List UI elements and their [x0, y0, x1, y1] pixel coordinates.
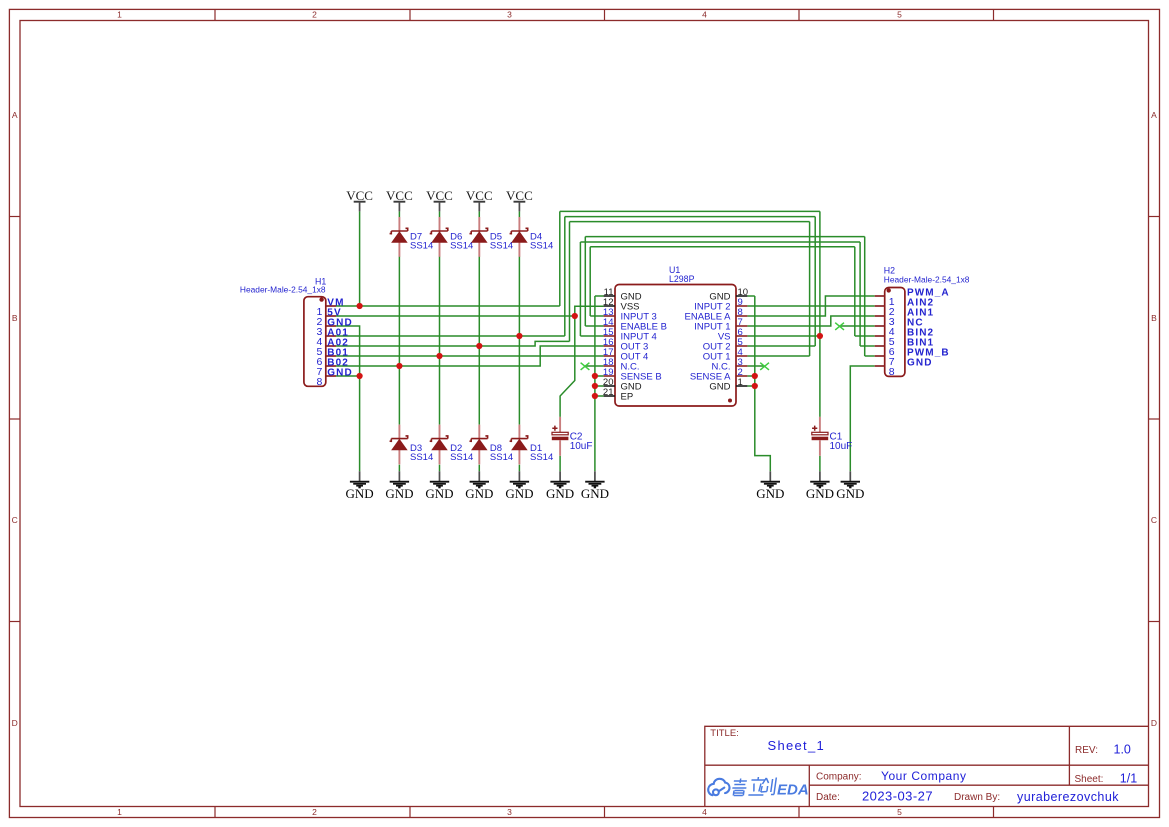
- wire BIN2 drop right: [854, 247, 856, 336]
- junction VM / VCC col1: [357, 303, 363, 309]
- wire H2 NC pin4 stub wire: [840, 325, 875, 327]
- wire bottom diode to GND col 3: [439, 465, 441, 472]
- wire VM over-the-top: [560, 210, 820, 212]
- wire U1 GND pin10: [747, 295, 754, 297]
- svg-text:10uF: 10uF: [570, 441, 593, 452]
- diode D5 SS14: [470, 217, 514, 257]
- wire VM riser left: [559, 211, 561, 306]
- svg-text:1.0: 1.0: [1114, 742, 1131, 756]
- svg-text:1: 1: [738, 377, 743, 388]
- svg-text:GND: GND: [346, 486, 374, 501]
- svg-text:SS14: SS14: [530, 241, 553, 252]
- wire 5V down to C2: [560, 316, 575, 417]
- svg-text:1/1: 1/1: [1120, 771, 1137, 785]
- power flag VCC 5: [506, 188, 533, 211]
- junction GND pin19: [592, 373, 598, 379]
- svg-text:SS14: SS14: [490, 241, 513, 252]
- wire U1 GND pin11: [595, 295, 604, 297]
- ground symbol GND 10: [836, 471, 864, 501]
- wire net row to bottom diode col 5: [518, 336, 520, 425]
- border row letters right: [1151, 110, 1157, 728]
- svg-text:GND: GND: [907, 357, 933, 368]
- wire bottom diode to GND col 2: [398, 465, 400, 472]
- ground symbol GND 7: [581, 471, 609, 501]
- svg-text:2: 2: [312, 10, 317, 20]
- svg-text:2: 2: [312, 807, 317, 817]
- wire U1 GND pin20 tap: [595, 385, 604, 387]
- diode D3 SS14: [390, 425, 434, 465]
- wire VCC to top diode col 5: [518, 211, 520, 217]
- svg-text:SS14: SS14: [450, 241, 473, 252]
- svg-text:A: A: [12, 110, 18, 120]
- wire GND column to ground: [359, 376, 361, 471]
- wire A02 row from H1 pin5: [336, 341, 570, 346]
- EDA logo cloud icon: [708, 779, 729, 795]
- wire VM row from H1 pin1: [336, 305, 560, 307]
- junction 5V / VSS / C2: [572, 313, 578, 319]
- diode D1 SS14: [510, 425, 554, 465]
- ground symbol GND 4: [465, 471, 493, 501]
- wire BIN1 to H2 pin6: [860, 345, 875, 347]
- svg-text:B: B: [12, 313, 18, 323]
- svg-text:3: 3: [507, 807, 512, 817]
- wire GND H1 pin3 down: [336, 326, 360, 376]
- wire VS to VM node: [747, 335, 820, 337]
- title block frame: [705, 726, 1149, 806]
- wire A01 to U1 OUT2 pin5: [747, 345, 815, 347]
- svg-text:Your Company: Your Company: [881, 769, 967, 783]
- wire U1 EP pin21 tap: [595, 395, 604, 397]
- power flag VCC 2: [386, 188, 413, 211]
- junction GND pin1: [752, 383, 758, 389]
- wire net row to bottom diode col 3: [439, 356, 441, 425]
- wire U1 left GND column: [594, 296, 596, 471]
- svg-text:C: C: [1151, 515, 1157, 525]
- wire top diode to net row col 4: [478, 257, 480, 347]
- wire INPUT3/BIN2 over-the-top: [590, 246, 855, 248]
- capacitor C1 10uF: [812, 417, 853, 456]
- wire A02 riser left: [569, 222, 571, 342]
- EDA logo CJK text (stylized): [731, 777, 776, 796]
- capacitor C2 10uF: [552, 417, 593, 456]
- wire INPUT1 to H2 AIN1: [747, 316, 874, 326]
- ground symbol GND 3: [425, 471, 453, 501]
- H1 net labels: [327, 297, 353, 378]
- wire bottom diode to GND col 5: [518, 465, 520, 472]
- wire VCC to top diode col 3: [439, 211, 441, 217]
- svg-text:GND: GND: [546, 486, 574, 501]
- svg-text:GND: GND: [806, 486, 834, 501]
- wire top diode to net row col 3: [439, 257, 441, 357]
- junction GND SENSE A: [752, 373, 758, 379]
- wire top diode to net row col 5: [518, 257, 520, 337]
- wire VCC to top diode col 2: [398, 211, 400, 217]
- wire A02 over-the-top: [570, 221, 810, 223]
- junction A02 / diode col D5-D8: [476, 343, 482, 349]
- svg-text:GND: GND: [327, 367, 353, 378]
- svg-text:1: 1: [117, 10, 122, 20]
- U1 right pin numbers: [738, 287, 749, 388]
- junction VM / VS / C1: [817, 333, 823, 339]
- svg-text:GND: GND: [709, 382, 730, 393]
- svg-text:Drawn By:: Drawn By:: [954, 792, 1000, 803]
- svg-text:GND: GND: [465, 486, 493, 501]
- power flag VCC 3: [426, 188, 453, 211]
- border column ticks bottom: [215, 807, 994, 818]
- wire VM drop right to C1: [819, 211, 821, 417]
- connector H1 Header-Male-2.54_1x8: [240, 276, 336, 388]
- svg-text:GND: GND: [425, 486, 453, 501]
- no-connect X U1 pin18: [581, 363, 590, 370]
- wire bottom diode to GND col 4: [478, 465, 480, 472]
- diode D7 SS14: [390, 217, 434, 257]
- ground symbol GND 1: [346, 471, 374, 501]
- ground symbol GND 2: [385, 471, 413, 501]
- svg-text:Date:: Date:: [816, 792, 840, 803]
- wire A01 over-the-top: [565, 216, 815, 218]
- svg-text:Header-Male-2.54_1x8: Header-Male-2.54_1x8: [240, 285, 326, 295]
- wire ENABLE A to H2 PWM_A: [747, 296, 874, 316]
- wire ENABLE B riser left: [584, 237, 586, 326]
- svg-text:REV:: REV:: [1075, 745, 1098, 756]
- wire U1 SENSE B pin19 tap: [595, 375, 604, 377]
- junction GND pin20: [592, 383, 598, 389]
- wire GND H1 pin8: [336, 375, 360, 377]
- ground symbol GND 9: [806, 471, 834, 501]
- no-connect X U1 pin3: [760, 363, 769, 370]
- diode D8 SS14: [470, 425, 514, 465]
- svg-text:yuraberezovchuk: yuraberezovchuk: [1017, 790, 1119, 804]
- svg-text:SS14: SS14: [530, 452, 553, 463]
- svg-text:GND: GND: [581, 486, 609, 501]
- svg-text:10uF: 10uF: [830, 441, 853, 452]
- svg-text:GND: GND: [836, 486, 864, 501]
- svg-text:EP: EP: [621, 392, 634, 403]
- wire A02 to U1 OUT1 pin4: [747, 355, 809, 357]
- U1 left pin names: [621, 292, 667, 403]
- wire top diode to net row col 2: [398, 257, 400, 367]
- wire U1 N.C. pin18 stub wire: [585, 365, 604, 367]
- svg-text:C: C: [12, 515, 18, 525]
- wire net row to bottom diode col 2: [398, 366, 400, 425]
- ground symbol GND 8: [756, 471, 784, 501]
- svg-text:TITLE:: TITLE:: [710, 728, 739, 739]
- svg-text:B: B: [1151, 313, 1157, 323]
- connector H2 Header-Male-2.54_1x8: [875, 266, 970, 378]
- wire B01 row to U1 OUT4 pin17: [336, 355, 604, 357]
- svg-text:GND: GND: [385, 486, 413, 501]
- wire INPUT4 riser left: [579, 242, 581, 336]
- svg-text:SS14: SS14: [450, 452, 473, 463]
- border row letters left: [12, 110, 18, 728]
- junction GND H1 pin8: [357, 373, 363, 379]
- wire INPUT4 to U1 pin15: [580, 335, 603, 337]
- wire ENABLE B/PWM_B over-the-top: [585, 236, 864, 238]
- wire ENABLE B to U1 pin14: [585, 325, 603, 327]
- no-connect X H2 pin4: [835, 323, 844, 330]
- power flag VCC 4: [466, 188, 493, 211]
- diode D4 SS14: [510, 217, 554, 257]
- svg-text:A: A: [1151, 110, 1157, 120]
- svg-text:SS14: SS14: [410, 241, 433, 252]
- svg-text:GND: GND: [756, 486, 784, 501]
- wire A02 drop right: [809, 222, 811, 356]
- svg-text:Header-Male-2.54_1x8: Header-Male-2.54_1x8: [884, 274, 970, 284]
- svg-text:2023-03-27: 2023-03-27: [862, 789, 933, 804]
- junction B01 / diode col D6-D2: [436, 353, 442, 359]
- H2 net labels: [907, 287, 950, 368]
- svg-text:5: 5: [897, 10, 902, 20]
- svg-text:1: 1: [117, 807, 122, 817]
- wire INPUT4/BIN1 over-the-top: [580, 241, 860, 243]
- wire VCC column 1: [359, 211, 361, 306]
- diode D2 SS14: [430, 425, 474, 465]
- junction GND pin21: [592, 393, 598, 399]
- border row ticks right: [1149, 217, 1160, 622]
- wire U1 N.C. pin3 stub wire: [747, 365, 764, 367]
- svg-text:4: 4: [702, 10, 707, 20]
- wire A01 row from H1 pin4: [336, 335, 565, 337]
- border column numbers top: [117, 10, 902, 20]
- svg-text:5: 5: [897, 807, 902, 817]
- svg-text:SS14: SS14: [410, 452, 433, 463]
- wire C1 minus to GND: [819, 456, 821, 472]
- svg-text:Sheet:: Sheet:: [1075, 774, 1104, 785]
- diode D6 SS14: [430, 217, 474, 257]
- border column numbers bottom: [117, 807, 902, 817]
- wire U1 SENSE A pin2 tap: [747, 375, 754, 377]
- border row ticks left: [9, 217, 20, 622]
- op-amp / IC U1 L298P body: [603, 265, 748, 406]
- U1 left pin numbers: [603, 287, 614, 398]
- border column ticks top: [215, 9, 994, 20]
- wire INPUT2/AIN2 row: [747, 305, 874, 307]
- wire A01 riser left: [564, 217, 566, 336]
- junction B02 / diode col D7-D3: [396, 363, 402, 369]
- wire U1 right GND column: [755, 296, 771, 471]
- svg-text:L298P: L298P: [669, 274, 695, 284]
- wire A01 drop right: [814, 217, 816, 346]
- wire INPUT3 to U1 pin13: [590, 315, 603, 317]
- svg-text:Sheet_1: Sheet_1: [768, 738, 826, 753]
- wire C2 minus to GND: [559, 456, 561, 472]
- wire H2 GND pin8 to ground: [850, 366, 874, 471]
- svg-text:Company:: Company:: [816, 772, 862, 783]
- wire INPUT3 riser left: [589, 247, 591, 316]
- wire net row to bottom diode col 4: [478, 346, 480, 425]
- svg-text:EDA: EDA: [777, 782, 809, 799]
- wire B02 row to U1 OUT3 pin16: [336, 346, 604, 366]
- power flag VCC 1: [346, 188, 373, 211]
- wire 5V to U1 VSS pin12: [575, 306, 604, 316]
- wire U1 GND pin1 tap: [747, 385, 754, 387]
- wire VCC to top diode col 4: [478, 211, 480, 217]
- U1 right pin names: [685, 292, 732, 393]
- svg-text:8: 8: [889, 366, 895, 378]
- wire PWM_B drop right: [864, 237, 866, 356]
- wire 5V row from H1 pin2: [336, 315, 575, 317]
- svg-text:GND: GND: [505, 486, 533, 501]
- ground symbol GND 5: [505, 471, 533, 501]
- wire BIN1 drop right: [859, 242, 861, 346]
- svg-text:D: D: [12, 718, 18, 728]
- wire PWM_B to H2 pin7: [865, 355, 875, 357]
- svg-text:SS14: SS14: [490, 452, 513, 463]
- svg-text:4: 4: [702, 807, 707, 817]
- svg-text:D: D: [1151, 718, 1157, 728]
- ground symbol GND 6: [546, 471, 574, 501]
- svg-text:21: 21: [603, 387, 614, 398]
- wire BIN2 to H2 pin5: [855, 335, 875, 337]
- svg-text:3: 3: [507, 10, 512, 20]
- svg-text:8: 8: [316, 376, 322, 388]
- junction A01 / diode col D4-D1: [516, 333, 522, 339]
